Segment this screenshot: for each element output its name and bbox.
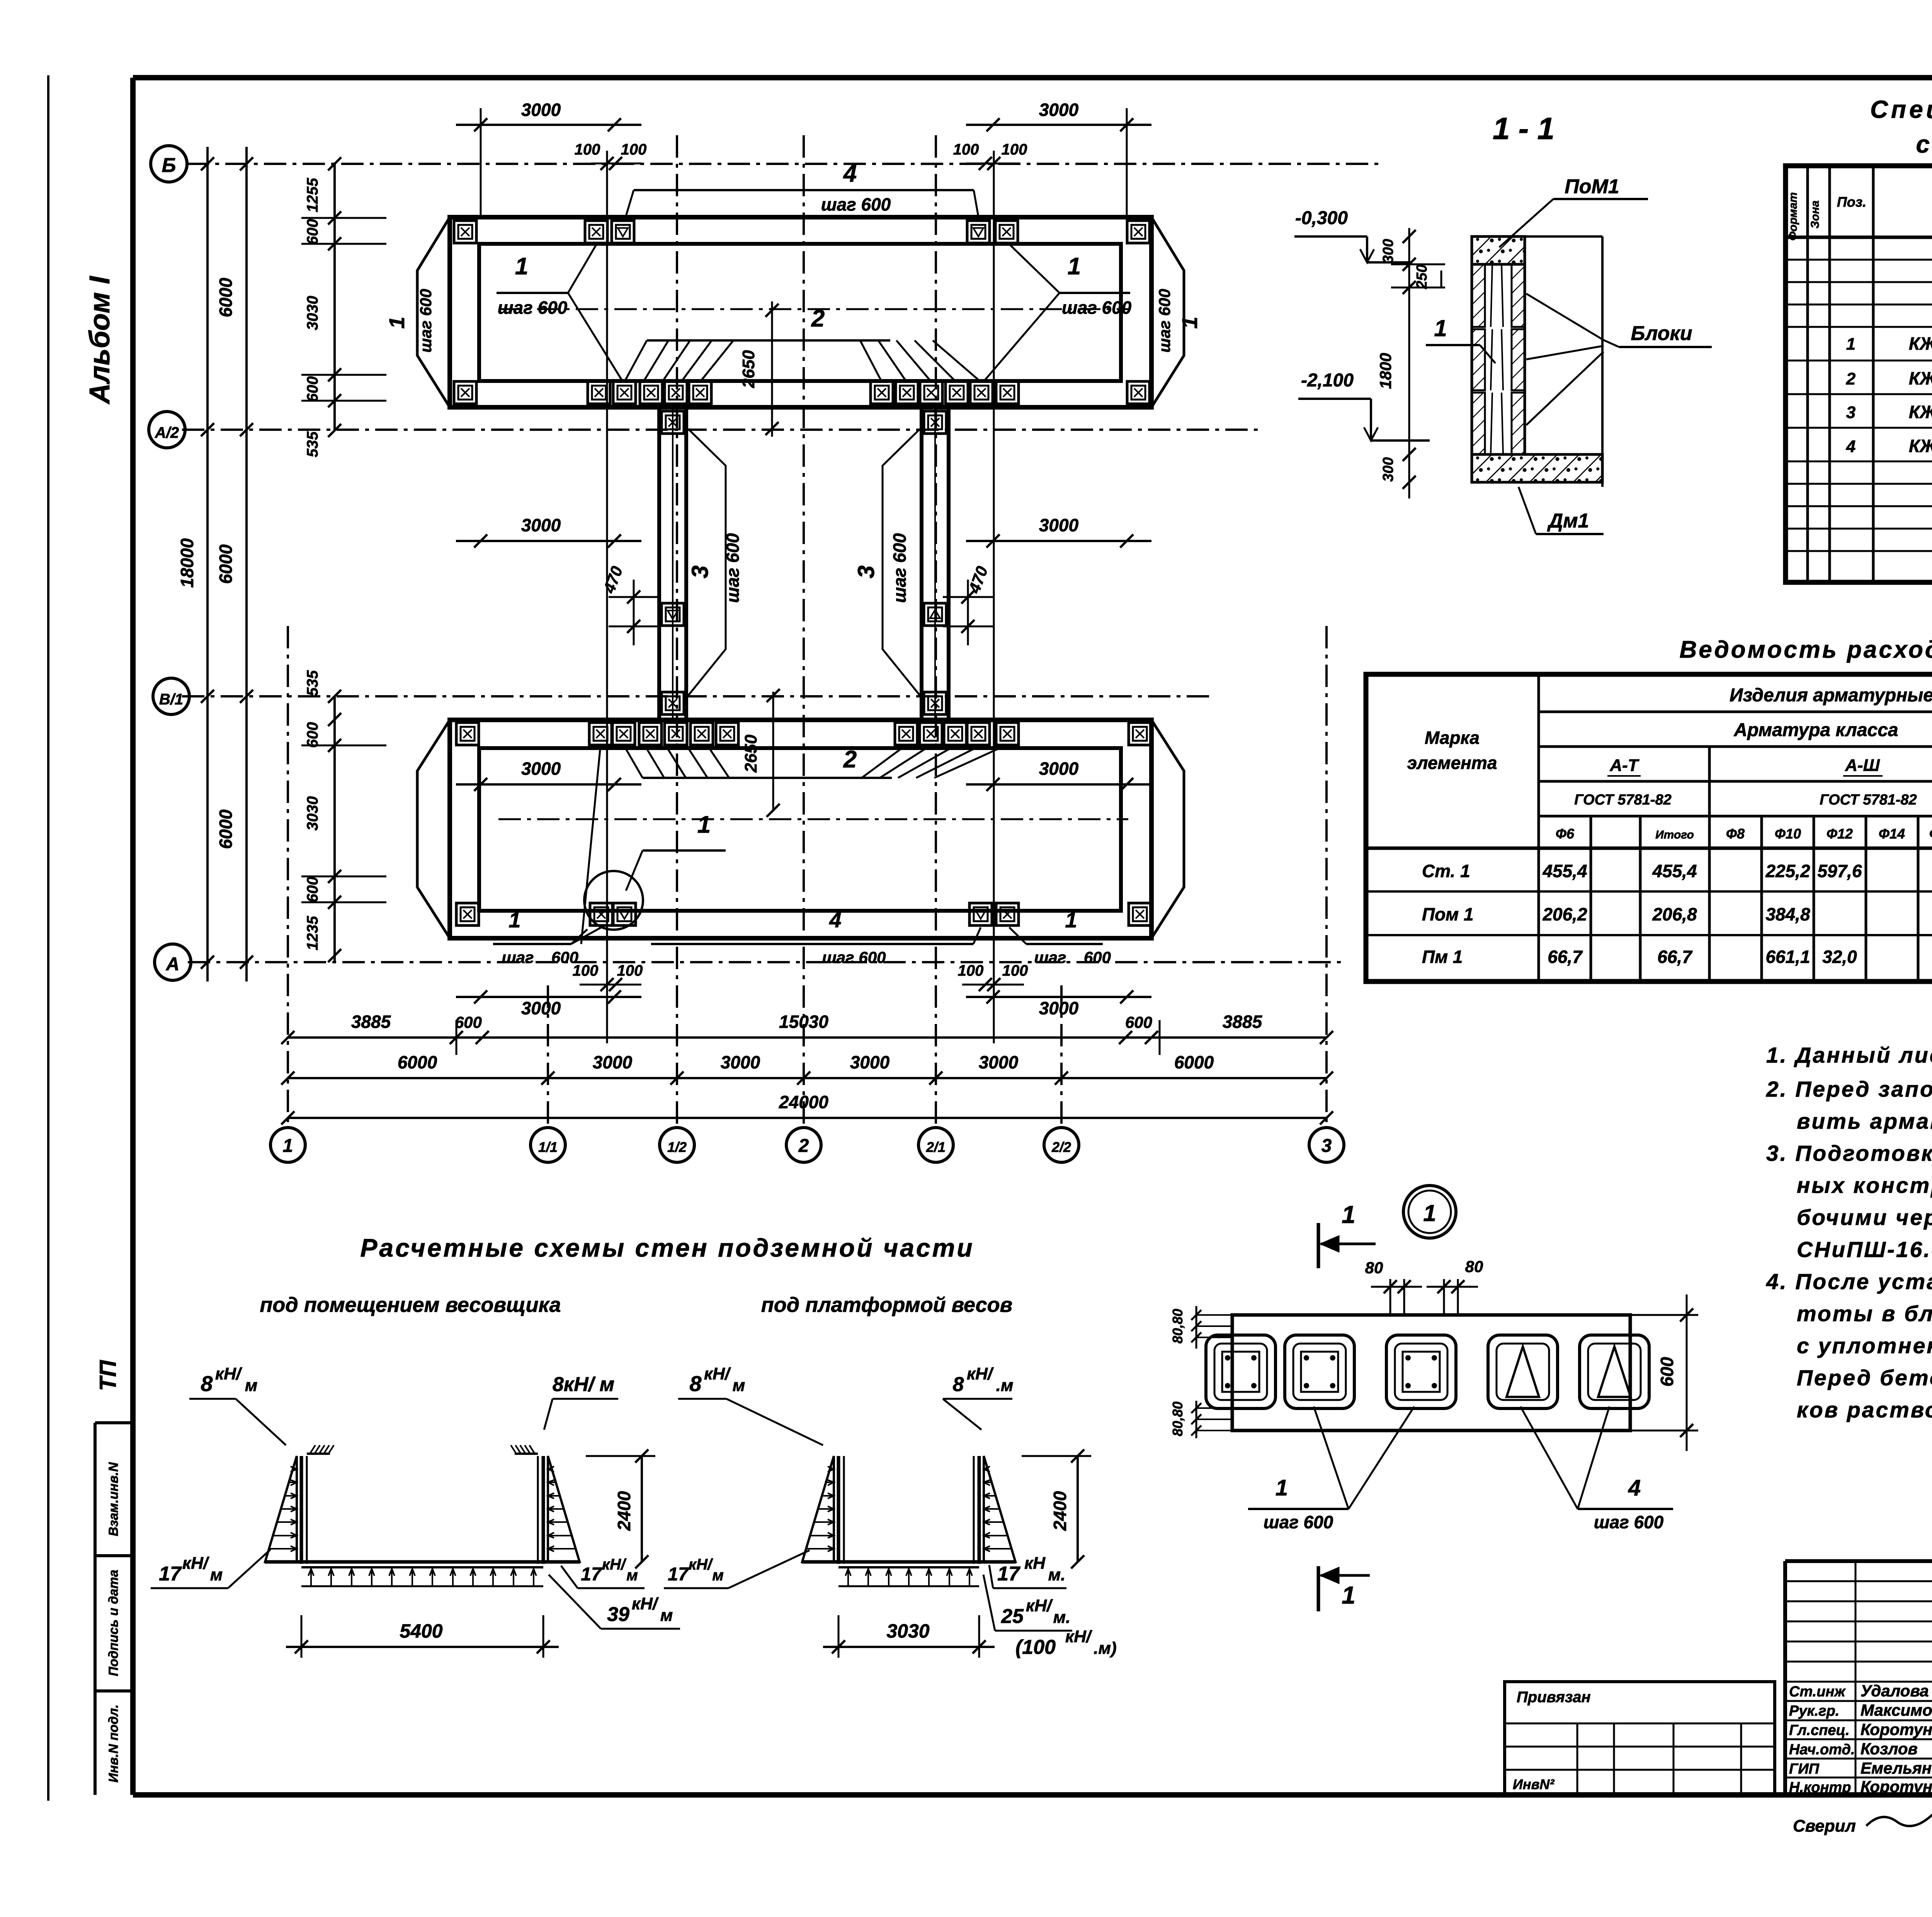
title block outline: [1785, 1559, 1932, 1563]
svg-text:3000: 3000: [1039, 100, 1079, 120]
svg-text:17: 17: [668, 1564, 689, 1585]
dim 2650 top: [771, 301, 773, 437]
svg-text:Привязан: Привязан: [1517, 1689, 1591, 1706]
svg-text:4: 4: [829, 908, 841, 932]
section dim chain: [1408, 228, 1410, 498]
svg-text:Пм 1: Пм 1: [1422, 947, 1463, 967]
left column walls: [657, 407, 661, 720]
svg-text:3000: 3000: [521, 759, 561, 779]
svg-text:Удалова: Удалова: [1861, 1682, 1929, 1700]
svg-text:м: м: [245, 1376, 258, 1395]
svg-text:2. Перед заполнением пустот: 2. Перед заполнением пустот в блоках бет…: [1766, 1077, 1932, 1102]
svg-text:25: 25: [1001, 1605, 1024, 1628]
svg-text:100: 100: [958, 962, 984, 979]
svg-text:1: 1: [1065, 908, 1077, 932]
svg-text:1/2: 1/2: [667, 1139, 687, 1155]
svg-text:ГОСТ 5781-82: ГОСТ 5781-82: [1574, 792, 1672, 808]
svg-text:ПоМ1: ПоМ1: [1565, 175, 1619, 198]
title block name rows: [1785, 1700, 1932, 1702]
svg-text:ТП: ТП: [95, 1359, 121, 1391]
svg-text:Сверил: Сверил: [1793, 1817, 1856, 1835]
svg-text:3000: 3000: [1039, 515, 1079, 535]
svg-text:6000: 6000: [1174, 1052, 1214, 1072]
section top slab hatched: [1472, 236, 1525, 264]
svg-text:80: 80: [1365, 1259, 1383, 1277]
svg-text:3. Подготовку к монтажу и: 3. Подготовку к монтажу и монтаж сборных…: [1766, 1141, 1932, 1166]
svg-text:5400: 5400: [400, 1620, 442, 1642]
section right wall line: [1601, 236, 1604, 487]
svg-text:А-Ш: А-Ш: [1845, 756, 1880, 775]
svg-text:Рук.гр.: Рук.гр.: [1789, 1703, 1839, 1719]
svg-text:Изделия арматурные: Изделия арматурные: [1730, 685, 1932, 706]
svg-text:100: 100: [1002, 141, 1027, 158]
svg-text:3000: 3000: [721, 1052, 760, 1072]
section mark 1 bottom: [1317, 1566, 1320, 1611]
svg-text:Итого: Итого: [1655, 828, 1694, 841]
svg-text:кН/: кН/: [632, 1594, 659, 1613]
svg-text:39: 39: [607, 1603, 629, 1626]
bottom bar centerline: [498, 818, 1128, 820]
svg-text:600: 600: [1084, 948, 1111, 966]
svg-text:кН/: кН/: [967, 1364, 994, 1383]
reinforcement cages top wall: [454, 221, 476, 243]
svg-text:384,8: 384,8: [1765, 904, 1810, 924]
svg-text:100: 100: [617, 962, 643, 979]
scheme1 right wall with load: [542, 1456, 545, 1564]
svg-text:600: 600: [1657, 1357, 1677, 1386]
svg-text:Спецификация к схеме армиро: Спецификация к схеме армирования: [1870, 95, 1932, 123]
svg-text:1/1: 1/1: [538, 1139, 558, 1155]
scheme2 left wall with load: [837, 1456, 840, 1564]
privyazan box: [1505, 1682, 1775, 1795]
svg-text:Нач.отд.: Нач.отд.: [1789, 1742, 1855, 1758]
top bar right chamfer: [1151, 217, 1184, 407]
svg-text:Ф16: Ф16: [1929, 826, 1932, 842]
top bar inner wall: [479, 244, 1121, 381]
svg-text:Емельянов: Емельянов: [1861, 1759, 1932, 1777]
svg-text:4. После установки арматуры: 4. После установки арматуры в проектное …: [1766, 1269, 1932, 1294]
svg-text:Козлов: Козлов: [1861, 1740, 1918, 1758]
svg-text:1: 1: [509, 908, 520, 932]
svg-text:1: 1: [1434, 315, 1447, 341]
svg-text:6000: 6000: [216, 277, 236, 317]
svg-text:100: 100: [575, 141, 600, 158]
svg-text:м: м: [712, 1567, 724, 1584]
svg-text:3030: 3030: [304, 296, 321, 330]
svg-text:под помещением весовщика: под помещением весовщика: [260, 1293, 561, 1317]
svg-text:225,2: 225,2: [1765, 861, 1810, 881]
svg-text:шаг 600: шаг 600: [417, 289, 435, 353]
svg-text:535: 535: [304, 670, 321, 696]
svg-text:600: 600: [304, 722, 321, 748]
svg-text:1: 1: [1342, 1201, 1355, 1228]
svg-text:8: 8: [689, 1371, 702, 1396]
svg-text:661,1: 661,1: [1765, 947, 1810, 967]
svg-text:2400: 2400: [614, 1491, 634, 1531]
svg-text:66,7: 66,7: [1657, 947, 1693, 967]
bottom axis circles: [270, 1128, 305, 1162]
svg-text:Арматура класса: Арматура класса: [1733, 720, 1898, 740]
sheet outer thin line left: [47, 75, 49, 1801]
vertical axis lines: [676, 135, 678, 1128]
svg-text:КЖИ - КП3: КЖИ - КП3: [1909, 402, 1932, 422]
svg-text:Ф14: Ф14: [1879, 826, 1905, 842]
svg-text:.м: .м: [996, 1376, 1014, 1395]
svg-text:2/1: 2/1: [926, 1139, 946, 1155]
svg-text:2: 2: [843, 746, 857, 773]
bottom dim 3000 near bar: [456, 996, 641, 998]
bottom bar outer wall: [450, 720, 1151, 938]
svg-text:455,4: 455,4: [1542, 861, 1587, 881]
svg-text:1: 1: [515, 253, 528, 280]
svg-text:ГИП: ГИП: [1789, 1761, 1820, 1777]
svg-text:Зона: Зона: [1809, 201, 1821, 228]
svg-text:4: 4: [843, 160, 857, 187]
svg-text:3: 3: [687, 565, 713, 578]
svg-text:455,4: 455,4: [1652, 861, 1697, 881]
svg-text:элемента: элемента: [1407, 753, 1497, 773]
svg-text:Гл.спец.: Гл.спец.: [1789, 1722, 1850, 1738]
svg-text:Коротун: Коротун: [1861, 1778, 1932, 1796]
svg-text:8кН/ м: 8кН/ м: [553, 1373, 614, 1396]
svg-text:Ф6: Ф6: [1556, 826, 1575, 842]
svg-text:Взам.инв.N: Взам.инв.N: [106, 1462, 121, 1536]
left stamp column: [94, 1423, 97, 1795]
svg-text:А-Т: А-Т: [1609, 756, 1639, 775]
svg-text:1800: 1800: [1376, 353, 1395, 389]
bottom chain 24000: [288, 1117, 1327, 1119]
svg-text:В/1: В/1: [159, 691, 183, 708]
svg-text:4: 4: [1628, 1475, 1641, 1500]
svg-text:2650: 2650: [739, 350, 758, 388]
svg-text:Ф8: Ф8: [1726, 826, 1745, 842]
svg-text:6000: 6000: [216, 809, 236, 849]
svg-text:кН/: кН/: [689, 1556, 713, 1573]
svg-text:1. Данный лист см. совместно: 1. Данный лист см. совместно с листом 10…: [1766, 1043, 1932, 1068]
svg-text:535: 535: [304, 431, 321, 457]
svg-text:600: 600: [304, 219, 321, 245]
reinforcement cages bottom wall of top bar: [454, 381, 476, 404]
svg-text:17: 17: [997, 1563, 1020, 1585]
svg-text:кН: кН: [1024, 1554, 1046, 1573]
svg-text:Ф10: Ф10: [1775, 826, 1801, 842]
sheet frame: [133, 75, 1932, 80]
top dim 3000 left: [456, 124, 641, 126]
svg-text:шаг: шаг: [1034, 948, 1066, 966]
svg-text:17: 17: [159, 1563, 182, 1585]
svg-text:4: 4: [1846, 437, 1855, 456]
spec table grid: [1786, 166, 1932, 582]
svg-text:Подпись и дата: Подпись и дата: [106, 1570, 121, 1676]
svg-text:3000: 3000: [850, 1052, 890, 1072]
scheme2 bottom slab: [802, 1560, 1016, 1564]
svg-text:Марка: Марка: [1425, 728, 1480, 748]
svg-text:вить арматуру монолитной пл: вить арматуру монолитной плиты в помещен…: [1797, 1109, 1932, 1134]
detail dims 80 top: [1389, 1279, 1391, 1315]
scheme2 dim 3030: [838, 1615, 840, 1658]
svg-text:шаг: шаг: [502, 948, 534, 966]
svg-text:3000: 3000: [521, 100, 561, 120]
svg-text:тоты в блоках заполняются: тоты в блоках заполняются бетоном марки …: [1797, 1301, 1932, 1326]
svg-text:2: 2: [1846, 369, 1856, 388]
scheme1 dim 5400: [301, 1615, 303, 1658]
svg-text:1 - 1: 1 - 1: [1493, 111, 1554, 146]
svg-text:100: 100: [1002, 962, 1028, 979]
svg-text:м: м: [660, 1606, 673, 1625]
right column walls: [920, 407, 923, 720]
axis B/1 horizontal: [182, 695, 1209, 697]
svg-text:с уплотнением глубинным вибр: с уплотнением глубинным вибратором.: [1797, 1334, 1932, 1358]
svg-text:3000: 3000: [1039, 998, 1079, 1018]
svg-text:кН/: кН/: [1026, 1596, 1053, 1615]
svg-text:3: 3: [853, 565, 879, 578]
axis A/2 horizontal: [182, 429, 1260, 431]
svg-text:2650: 2650: [742, 735, 760, 773]
svg-text:206,2: 206,2: [1542, 904, 1587, 924]
bottom chain row 6000-3000x4-6000: [288, 1077, 1327, 1079]
cages bottom wall of bottom bar: [456, 903, 479, 925]
svg-text:Формат: Формат: [1787, 192, 1799, 240]
svg-text:Ф12: Ф12: [1827, 826, 1853, 842]
svg-text:Перед бетонированием пустоты: Перед бетонированием пустоты очистить от…: [1797, 1366, 1932, 1390]
svg-text:Пом 1: Пом 1: [1422, 904, 1474, 924]
scheme1 uplift arrows: [301, 1585, 543, 1587]
svg-text:1255: 1255: [304, 178, 321, 213]
svg-text:ков раствора и мусора.: ков раствора и мусора.: [1797, 1398, 1932, 1422]
detail dims 80,80 left: [1196, 1306, 1197, 1349]
svg-text:8: 8: [953, 1373, 964, 1396]
svg-text:м: м: [733, 1376, 745, 1395]
scheme1 dim 2400: [586, 1455, 655, 1457]
axis B horizontal: [187, 163, 1379, 165]
svg-text:бочими чертежами , проектом: бочими чертежами , проектом производства…: [1797, 1205, 1932, 1230]
svg-text:КЖИ-КП4: КЖИ-КП4: [1909, 436, 1932, 456]
svg-text:шаг 600: шаг 600: [821, 194, 891, 214]
svg-text:1: 1: [697, 811, 711, 838]
axis A horizontal: [188, 961, 1341, 963]
svg-text:шаг 600: шаг 600: [498, 298, 568, 318]
svg-text:шаг 600: шаг 600: [822, 948, 886, 966]
svg-text:Ст.инж: Ст.инж: [1789, 1684, 1846, 1700]
svg-text:100: 100: [621, 141, 647, 158]
bottom chain row 3885-600-15030-600-3885: [288, 1036, 1327, 1039]
svg-text:8: 8: [201, 1371, 213, 1396]
svg-text:100: 100: [953, 141, 979, 158]
svg-text:Альбом I: Альбом I: [83, 276, 116, 405]
svg-text:Ведомость расхода стали: Ведомость расхода стали на элемент, кг.: [1679, 636, 1932, 663]
detail beam: [1232, 1315, 1630, 1431]
svg-text:597,6: 597,6: [1817, 861, 1862, 881]
detail callout circle: [584, 871, 643, 930]
svg-text:206,8: 206,8: [1652, 904, 1697, 924]
svg-text:17: 17: [581, 1564, 602, 1585]
svg-text:Поз.: Поз.: [1837, 194, 1866, 210]
section wall with blocks: [1472, 264, 1525, 454]
svg-text:А: А: [166, 954, 180, 975]
svg-text:15030: 15030: [779, 1012, 828, 1032]
svg-text:м.: м.: [1048, 1565, 1066, 1584]
svg-text:шаг 600: шаг 600: [1155, 289, 1173, 353]
svg-text:Н.контр: Н.контр: [1789, 1779, 1851, 1796]
scheme2 uplift arrows: [838, 1585, 979, 1587]
svg-text:300: 300: [1380, 457, 1396, 481]
svg-text:1: 1: [1177, 316, 1202, 328]
svg-text:3000: 3000: [1039, 759, 1079, 779]
section bottom slab hatched: [1472, 454, 1602, 482]
mid dim 3000 row2 left/right: [456, 783, 641, 786]
svg-text:кН/: кН/: [215, 1364, 243, 1383]
svg-text:100: 100: [573, 962, 599, 979]
svg-text:КЖИ -КП2: КЖИ -КП2: [1909, 368, 1932, 388]
dim 470 right: [967, 580, 969, 645]
column callout bracket right: [883, 429, 920, 696]
svg-text:м.: м.: [1053, 1608, 1071, 1627]
svg-text:1: 1: [283, 1136, 293, 1156]
svg-text:Инв.N подл.: Инв.N подл.: [106, 1704, 121, 1783]
circled 1: [1403, 1186, 1456, 1238]
svg-text:КЖИ- КП1: КЖИ- КП1: [1909, 333, 1932, 354]
svg-text:м: м: [626, 1567, 638, 1584]
svg-text:стен подземной части Ст1: стен подземной части Ст1: [1916, 130, 1932, 158]
svg-text:600: 600: [455, 1013, 482, 1031]
scheme2 dim 2400: [1022, 1455, 1091, 1457]
svg-text:1: 1: [1423, 1200, 1436, 1226]
cages top wall of bottom bar: [456, 723, 479, 745]
svg-text:ных конструкций осуществлять: ных конструкций осуществлять в соответст…: [1797, 1173, 1932, 1198]
svg-text:3885: 3885: [1223, 1012, 1263, 1032]
scheme1 bottom slab: [265, 1560, 580, 1564]
svg-text:2/2: 2/2: [1051, 1139, 1071, 1155]
svg-text:Максимов: Максимов: [1861, 1701, 1932, 1719]
scheme2 right wall with load: [978, 1456, 981, 1564]
left dim chain 18000: [206, 147, 209, 981]
svg-text:600: 600: [1125, 1013, 1152, 1031]
section mark 1 top: [1317, 1223, 1320, 1268]
title block upper small rows: [1785, 1580, 1932, 1582]
svg-text:80: 80: [1465, 1257, 1483, 1276]
scheme1 anchor hatch left: [307, 1453, 330, 1455]
svg-text:3000: 3000: [593, 1052, 633, 1072]
bottom bar inner wall: [479, 748, 1121, 911]
svg-text:-0,300: -0,300: [1295, 208, 1348, 228]
svg-text:Б: Б: [162, 154, 176, 177]
svg-text:ГОСТ 5781-82: ГОСТ 5781-82: [1820, 792, 1917, 808]
column callout bracket left: [688, 429, 726, 696]
svg-text:шаг 600: шаг 600: [889, 533, 910, 603]
svg-text:кН/: кН/: [182, 1554, 210, 1573]
svg-text:2: 2: [811, 305, 825, 332]
vertical lines: [1537, 674, 1540, 981]
svg-text:66,7: 66,7: [1548, 947, 1583, 967]
svg-text:кН/: кН/: [602, 1556, 627, 1573]
dim 2650 bottom: [772, 692, 774, 811]
svg-text:1: 1: [1342, 1581, 1355, 1609]
svg-text:600: 600: [304, 376, 321, 402]
svg-text:3000: 3000: [979, 1052, 1019, 1072]
detail dim 600 right: [1630, 1314, 1698, 1316]
svg-text:3: 3: [1321, 1136, 1332, 1156]
scheme1 left wall with load: [300, 1456, 303, 1564]
svg-text:СНиПШ-16.-80: СНиПШ-16.-80: [1797, 1237, 1932, 1262]
svg-text:Дм1: Дм1: [1547, 510, 1589, 532]
svg-text:м: м: [210, 1565, 223, 1584]
wall projection extension lines: [606, 151, 608, 1043]
svg-text:1: 1: [1846, 335, 1855, 354]
top bar left chamfer: [417, 217, 450, 407]
dim 470 left: [633, 580, 635, 645]
svg-text:6000: 6000: [216, 544, 236, 584]
svg-text:250: 250: [1414, 264, 1430, 289]
svg-text:3030: 3030: [304, 796, 321, 831]
svg-text:1235: 1235: [304, 916, 321, 951]
top bar centerline: [498, 308, 1128, 310]
leaders to corner circle: [581, 746, 600, 944]
svg-text:24000: 24000: [779, 1092, 828, 1112]
svg-text:Расчетные схемы стен подзе: Расчетные схемы стен подземной части: [360, 1233, 974, 1262]
svg-text:300: 300: [1380, 239, 1396, 263]
svg-text:кН/: кН/: [1065, 1627, 1093, 1646]
svg-text:ИнвN²: ИнвN²: [1513, 1776, 1554, 1792]
left sub chain top: [333, 164, 336, 430]
svg-text:3885: 3885: [351, 1012, 391, 1032]
svg-text:2400: 2400: [1050, 1491, 1070, 1531]
svg-text:3000: 3000: [521, 515, 561, 535]
svg-text:600: 600: [304, 877, 321, 903]
svg-text:-2,100: -2,100: [1301, 370, 1354, 391]
left sub chain bottom: [333, 696, 336, 962]
svg-text:3: 3: [1846, 403, 1855, 422]
column mid cages: [662, 603, 684, 626]
column junction cages: [662, 411, 684, 434]
svg-text:80,80: 80,80: [1170, 1309, 1185, 1344]
svg-text:6000: 6000: [398, 1052, 437, 1072]
svg-text:2: 2: [798, 1136, 809, 1156]
svg-text:Ст. 1: Ст. 1: [1422, 861, 1470, 881]
left dim chain 6000s: [245, 147, 248, 981]
svg-text:Блоки: Блоки: [1631, 322, 1692, 345]
svg-text:3000: 3000: [521, 998, 561, 1018]
mid dim 3000 row1 left/right: [456, 540, 641, 542]
svg-text:1: 1: [1276, 1475, 1288, 1500]
svg-text:80,80: 80,80: [1170, 1402, 1185, 1436]
svg-text:1: 1: [384, 316, 409, 328]
svg-text:шаг 600: шаг 600: [1594, 1512, 1664, 1532]
svg-text:Коротун: Коротун: [1861, 1720, 1932, 1738]
bottom bar left chamfer: [417, 720, 450, 938]
svg-text:.м): .м): [1094, 1639, 1116, 1658]
svg-text:18000: 18000: [177, 538, 197, 588]
svg-text:под платформой весов: под платформой весов: [761, 1293, 1013, 1317]
svg-text:1: 1: [1068, 253, 1081, 280]
vedomost grid: [1366, 674, 1932, 981]
bottom bar right chamfer: [1151, 720, 1184, 938]
svg-text:шаг 600: шаг 600: [1062, 298, 1132, 318]
svg-text:шаг 600: шаг 600: [1264, 1512, 1333, 1532]
svg-text:кН/: кН/: [704, 1364, 731, 1383]
top dim 3000 right: [966, 124, 1151, 126]
svg-text:шаг 600: шаг 600: [723, 533, 743, 603]
header horizontals: [1539, 711, 1932, 713]
top bar outer wall: [450, 217, 1151, 407]
svg-text:А/2: А/2: [155, 424, 179, 441]
svg-text:(100: (100: [1015, 1636, 1056, 1658]
svg-text:32,0: 32,0: [1822, 947, 1857, 967]
svg-text:3030: 3030: [886, 1620, 929, 1642]
